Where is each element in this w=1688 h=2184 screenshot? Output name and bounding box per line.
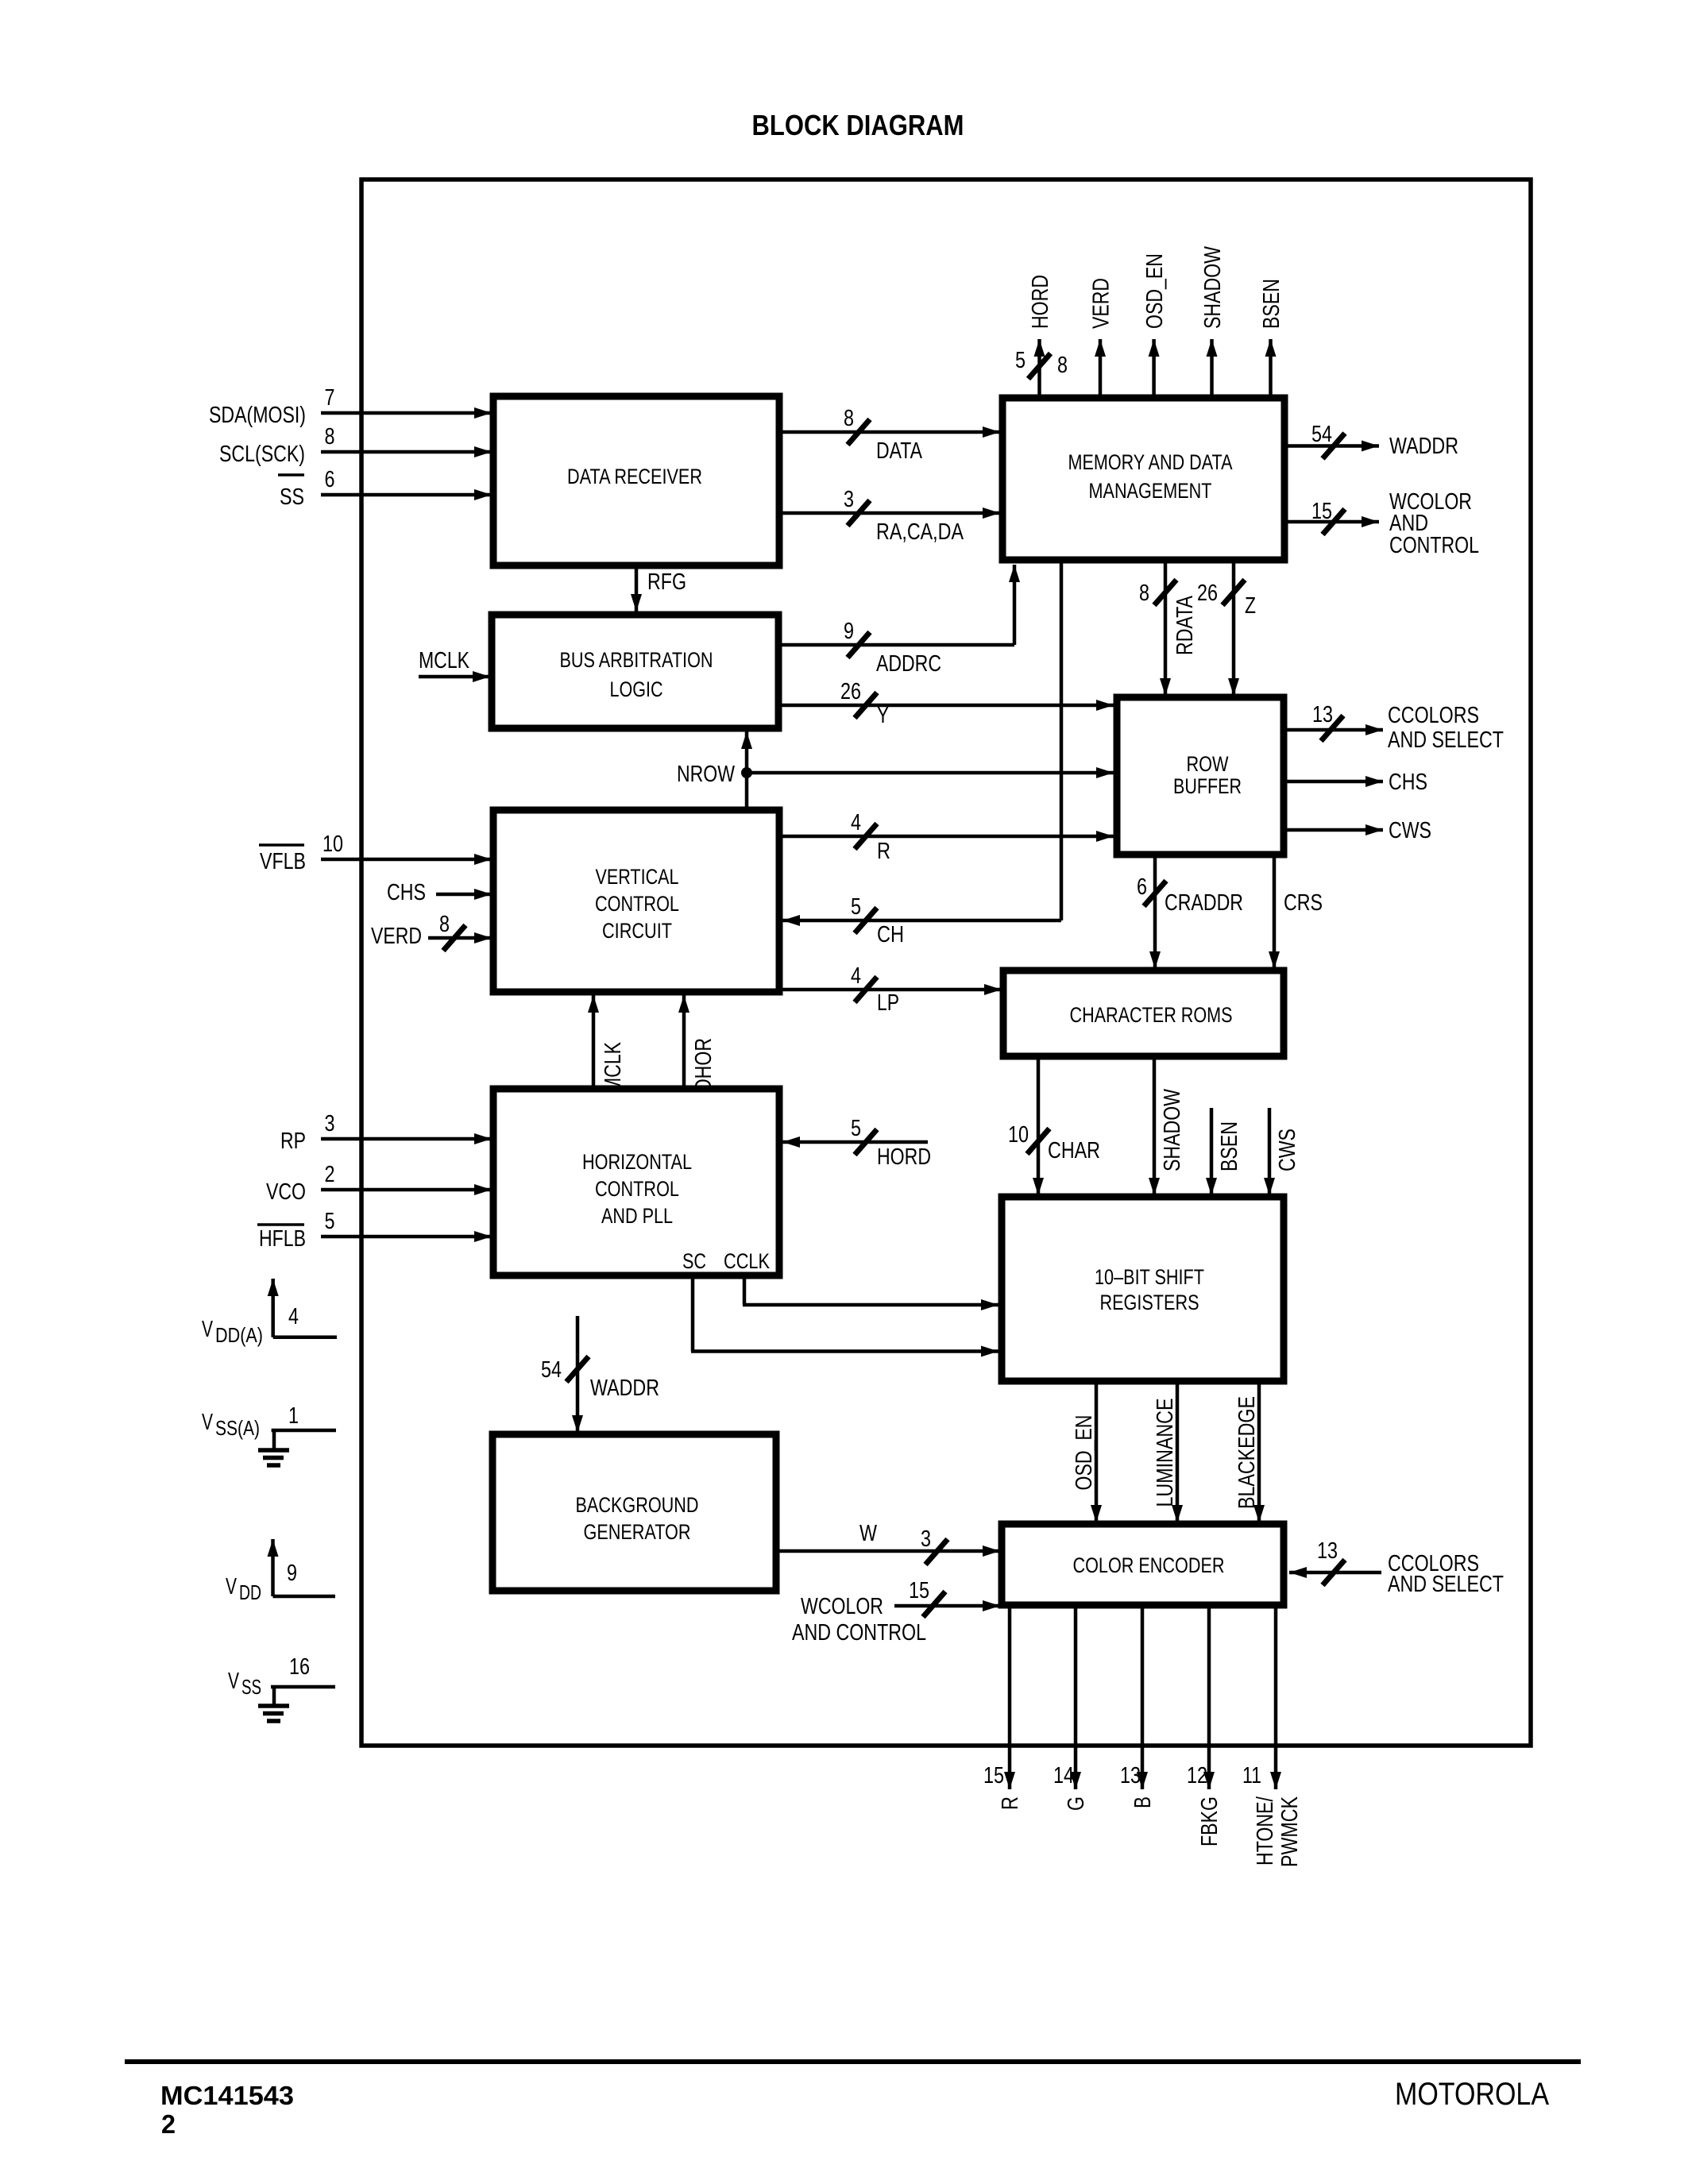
svg-text:10: 10: [1008, 1122, 1029, 1148]
svg-text:HTONE/: HTONE/: [1253, 1796, 1278, 1866]
svg-text:12: 12: [1187, 1763, 1207, 1788]
svg-text:CIRCUIT: CIRCUIT: [602, 919, 672, 943]
svg-text:W: W: [859, 1521, 878, 1546]
bus RDATA 8: [1139, 560, 1198, 696]
wire SHADOW (char roms to shift reg): [1149, 1056, 1185, 1195]
svg-text:BSEN: BSEN: [1259, 279, 1284, 329]
svg-text:10: 10: [323, 832, 343, 857]
bus RA,CA,DA 3: [779, 487, 1000, 545]
bus W 3: [776, 1521, 1000, 1565]
svg-text:1: 1: [288, 1403, 299, 1429]
bus VERD 8: [371, 912, 492, 951]
svg-text:SHADOW: SHADOW: [1200, 245, 1226, 329]
svg-text:VFLB: VFLB: [260, 849, 306, 874]
svg-text:HORD: HORD: [877, 1144, 931, 1170]
wire BSEN (stub into shift reg): [1206, 1108, 1242, 1195]
svg-text:RA,CA,DA: RA,CA,DA: [876, 519, 964, 545]
svg-text:9: 9: [287, 1561, 297, 1586]
wire DHOR: [678, 995, 717, 1092]
wire CCLK routing: [743, 1275, 999, 1310]
svg-text:HFLB: HFLB: [259, 1226, 306, 1252]
svg-text:REGISTERS: REGISTERS: [1100, 1291, 1199, 1314]
svg-text:DHOR: DHOR: [691, 1038, 717, 1092]
svg-text:7: 7: [325, 385, 335, 411]
bus HORD 5 (into horizontal ctl): [782, 1116, 931, 1170]
svg-text:10–BIT SHIFT: 10–BIT SHIFT: [1095, 1265, 1204, 1289]
wire VCO pin 2: [266, 1162, 492, 1205]
svg-text:DATA: DATA: [876, 438, 923, 464]
power VSS(A) pin 1 with ground: [202, 1403, 336, 1465]
svg-text:Z: Z: [1245, 593, 1256, 619]
svg-text:CHAR: CHAR: [1048, 1138, 1100, 1163]
wire SDA(MOSI) pin 7: [209, 385, 492, 428]
wire SC routing: [691, 1275, 999, 1357]
bus LP 4: [779, 963, 1002, 1016]
svg-text:LOGIC: LOGIC: [610, 677, 663, 701]
wire CHS: [387, 880, 492, 905]
svg-text:AND SELECT: AND SELECT: [1388, 1572, 1504, 1597]
block BUS ARBITRATION LOGIC: [492, 615, 778, 728]
svg-text:8: 8: [325, 424, 335, 450]
bus CCOLORS AND SELECT 13 (into color encoder): [1289, 1538, 1504, 1597]
wire LUMINANCE: [1153, 1381, 1183, 1522]
bus CCOLORS AND SELECT 13 (row buffer): [1284, 702, 1504, 753]
wire CRS: [1269, 855, 1323, 969]
chip boundary: [361, 179, 1531, 1746]
wire RP pin 3: [280, 1111, 492, 1154]
svg-text:B: B: [1130, 1796, 1156, 1808]
svg-text:DD: DD: [239, 1580, 261, 1604]
wire SHADOW (top output): [1200, 245, 1226, 399]
svg-text:VERD: VERD: [1089, 278, 1114, 329]
svg-text:SS: SS: [280, 484, 304, 510]
svg-text:CWS: CWS: [1389, 818, 1431, 843]
svg-text:CHARACTER ROMS: CHARACTER ROMS: [1070, 1003, 1233, 1027]
svg-text:15: 15: [909, 1578, 929, 1603]
svg-text:BSEN: BSEN: [1217, 1121, 1242, 1171]
svg-text:CRADDR: CRADDR: [1165, 890, 1243, 916]
wire RFG: [631, 565, 686, 612]
block COLOR ENCODER: [1002, 1524, 1284, 1605]
svg-text:5: 5: [325, 1209, 335, 1234]
bus WADDR 54 (into background gen): [541, 1316, 659, 1433]
bus ADDRC 9: [779, 565, 1020, 677]
svg-text:HORIZONTAL: HORIZONTAL: [582, 1150, 692, 1174]
svg-text:NROW: NROW: [677, 762, 735, 787]
svg-text:AND SELECT: AND SELECT: [1388, 727, 1504, 753]
block BACKGROUND GENERATOR: [492, 1434, 776, 1591]
svg-text:V: V: [202, 1317, 213, 1342]
svg-text:R: R: [998, 1796, 1023, 1810]
svg-text:SS(A): SS(A): [215, 1416, 260, 1440]
svg-text:BACKGROUND: BACKGROUND: [576, 1493, 699, 1517]
block ROW BUFFER: [1117, 697, 1284, 855]
wire output R pin 15: [983, 1605, 1023, 1810]
wire MCLK: [419, 648, 490, 682]
svg-text:COLOR ENCODER: COLOR ENCODER: [1073, 1553, 1225, 1577]
svg-text:DD(A): DD(A): [215, 1323, 263, 1347]
wire SCL(SCK) pin 8: [219, 424, 492, 467]
wire CHS (row buffer output): [1284, 770, 1427, 795]
svg-text:AND CONTROL: AND CONTROL: [792, 1620, 926, 1646]
svg-text:3: 3: [921, 1526, 931, 1552]
block 10-BIT SHIFT REGISTERS: [1002, 1197, 1284, 1381]
svg-text:CCOLORS: CCOLORS: [1388, 703, 1479, 728]
svg-text:GENERATOR: GENERATOR: [584, 1520, 691, 1544]
svg-text:VERD: VERD: [371, 924, 422, 949]
svg-text:6: 6: [325, 467, 335, 492]
svg-text:9: 9: [844, 619, 854, 644]
svg-text:8: 8: [1139, 581, 1149, 606]
bus DATA 8: [779, 406, 1000, 464]
svg-text:MEMORY AND DATA: MEMORY AND DATA: [1068, 450, 1233, 474]
svg-text:CWS: CWS: [1275, 1129, 1300, 1171]
svg-text:CONTROL: CONTROL: [595, 1177, 679, 1201]
block CHARACTER ROMS: [1003, 970, 1284, 1056]
svg-text:RP: RP: [280, 1129, 306, 1154]
svg-text:BLOCK DIAGRAM: BLOCK DIAGRAM: [752, 109, 964, 141]
svg-text:14: 14: [1053, 1763, 1074, 1788]
wire output B pin 13: [1120, 1605, 1156, 1808]
bus WCOLOR AND CONTROL 15 (into color encoder): [792, 1578, 1000, 1646]
power VDD(A) pin 4: [202, 1279, 337, 1347]
svg-text:13: 13: [1312, 702, 1333, 727]
svg-text:V: V: [226, 1574, 237, 1599]
wire output HTONE/PWMCK pin 11: [1242, 1605, 1303, 1867]
svg-text:WADDR: WADDR: [590, 1376, 659, 1401]
wire NROW: [677, 731, 1114, 810]
svg-text:MOTOROLA: MOTOROLA: [1395, 2077, 1549, 2112]
svg-text:WCOLOR: WCOLOR: [801, 1594, 883, 1619]
svg-text:DATA RECEIVER: DATA RECEIVER: [567, 465, 702, 488]
svg-text:HORD: HORD: [1028, 275, 1053, 329]
svg-text:4: 4: [851, 963, 861, 989]
svg-text:8: 8: [439, 912, 450, 937]
svg-text:54: 54: [541, 1357, 562, 1383]
svg-text:5: 5: [851, 894, 861, 920]
svg-text:5: 5: [851, 1116, 861, 1141]
bus WADDR 54: [1284, 422, 1458, 459]
svg-text:2: 2: [161, 2109, 176, 2139]
svg-text:Y: Y: [877, 703, 889, 728]
svg-text:SC: SC: [682, 1249, 706, 1273]
svg-text:CH: CH: [877, 922, 904, 947]
svg-text:OSD_EN: OSD_EN: [1142, 253, 1168, 329]
svg-text:BLACKEDGE: BLACKEDGE: [1234, 1396, 1260, 1509]
svg-text:16: 16: [289, 1654, 310, 1680]
svg-text:54: 54: [1311, 422, 1332, 447]
svg-text:4: 4: [851, 810, 861, 835]
wire OSD_EN (shift reg to color encoder): [1072, 1381, 1102, 1522]
svg-text:OSD_EN: OSD_EN: [1072, 1415, 1097, 1491]
block MEMORY AND DATA MANAGEMENT: [1002, 398, 1284, 560]
bus CRADDR 6: [1137, 855, 1243, 969]
svg-text:26: 26: [1197, 581, 1218, 606]
bus Z 26: [1197, 560, 1256, 696]
svg-text:V: V: [228, 1669, 239, 1694]
bus R 4: [779, 810, 1114, 864]
svg-text:BUS ARBITRATION: BUS ARBITRATION: [560, 648, 713, 672]
svg-text:6: 6: [1137, 874, 1147, 900]
svg-text:26: 26: [840, 679, 861, 704]
svg-text:CONTROL: CONTROL: [1389, 533, 1479, 558]
wire SS pin 6: [278, 467, 492, 510]
svg-text:LUMINANCE: LUMINANCE: [1153, 1399, 1178, 1507]
wire VERD (top output): [1089, 278, 1114, 399]
wire BLACKEDGE: [1234, 1381, 1265, 1522]
block HORIZONTAL CONTROL AND PLL: [493, 1089, 779, 1275]
svg-text:VCO: VCO: [266, 1179, 306, 1205]
bus Y 26: [778, 679, 1114, 728]
svg-text:LP: LP: [877, 990, 899, 1016]
svg-text:5: 5: [1015, 348, 1026, 373]
svg-text:CHS: CHS: [387, 880, 426, 905]
block DATA RECEIVER: [493, 396, 779, 565]
svg-text:SS: SS: [241, 1675, 261, 1699]
svg-text:MCLK: MCLK: [419, 648, 470, 673]
svg-text:13: 13: [1317, 1538, 1338, 1564]
wire HORD (top output): [1015, 275, 1068, 399]
svg-text:VERTICAL: VERTICAL: [596, 865, 679, 889]
svg-text:MANAGEMENT: MANAGEMENT: [1089, 479, 1212, 503]
svg-text:4: 4: [288, 1304, 299, 1329]
svg-text:V: V: [202, 1410, 213, 1435]
svg-text:3: 3: [844, 487, 854, 512]
svg-text:13: 13: [1120, 1763, 1141, 1788]
svg-text:RDATA: RDATA: [1172, 595, 1198, 655]
svg-text:G: G: [1064, 1796, 1089, 1811]
svg-text:8: 8: [1057, 353, 1068, 378]
wire MCLK (horizontal ctl to vertical ctl): [588, 995, 626, 1093]
svg-text:CRS: CRS: [1284, 890, 1323, 916]
svg-text:SDA(MOSI): SDA(MOSI): [209, 403, 306, 428]
wire CWS (row buffer output): [1284, 818, 1431, 843]
power VDD pin 9: [226, 1539, 335, 1604]
svg-text:AND PLL: AND PLL: [601, 1204, 673, 1228]
svg-text:SCL(SCK): SCL(SCK): [219, 442, 305, 467]
svg-text:15: 15: [983, 1763, 1004, 1788]
wire OSD_EN (top output): [1142, 253, 1168, 399]
wire BSEN (top output): [1259, 279, 1284, 399]
svg-text:ADDRC: ADDRC: [876, 651, 941, 677]
svg-text:MCLK: MCLK: [601, 1041, 626, 1093]
svg-text:BUFFER: BUFFER: [1173, 774, 1242, 798]
power VSS pin 16 with ground: [228, 1654, 335, 1721]
bus CH 5: [782, 560, 1061, 947]
wire output FBKG pin 12: [1187, 1605, 1223, 1846]
bus CHAR 10: [1008, 1056, 1100, 1195]
svg-text:R: R: [877, 839, 890, 864]
svg-text:FBKG: FBKG: [1197, 1796, 1223, 1846]
wire HFLB pin 5: [257, 1209, 492, 1252]
svg-text:PWMCK: PWMCK: [1277, 1796, 1303, 1867]
bus WCOLOR AND CONTROL 15: [1284, 489, 1479, 558]
svg-text:WADDR: WADDR: [1389, 434, 1458, 459]
svg-text:MC141543: MC141543: [160, 2081, 294, 2110]
wire CWS (stub into shift reg): [1264, 1108, 1300, 1195]
svg-text:2: 2: [325, 1162, 335, 1187]
svg-text:11: 11: [1242, 1763, 1261, 1788]
svg-text:CCLK: CCLK: [724, 1249, 770, 1273]
svg-text:8: 8: [844, 406, 854, 431]
svg-text:CHS: CHS: [1389, 770, 1427, 795]
svg-text:3: 3: [325, 1111, 335, 1136]
svg-text:ROW: ROW: [1187, 752, 1229, 776]
svg-text:15: 15: [1311, 499, 1332, 524]
wire VFLB pin 10: [259, 832, 492, 874]
svg-text:CONTROL: CONTROL: [595, 892, 679, 916]
footer rule: [125, 2059, 1581, 2064]
wire output G pin 14: [1053, 1605, 1089, 1811]
svg-text:RFG: RFG: [647, 569, 686, 595]
svg-text:SHADOW: SHADOW: [1160, 1088, 1185, 1171]
block VERTICAL CONTROL CIRCUIT: [493, 810, 779, 992]
